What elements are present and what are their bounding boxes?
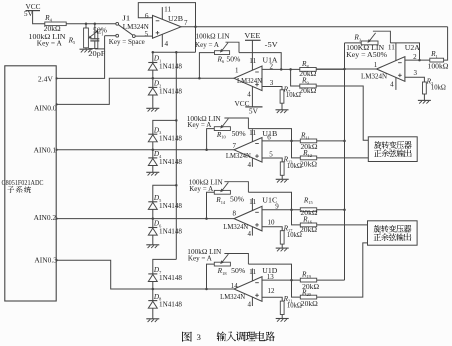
svg-text:4: 4 xyxy=(247,300,251,308)
svg-text:AIN0.1: AIN0.1 xyxy=(34,146,57,155)
resistor R15 20k xyxy=(300,208,344,212)
junction ch2 clamp xyxy=(152,217,155,220)
U1A pin3 stub xyxy=(262,87,282,91)
junction ch2 feedback riser xyxy=(205,217,208,220)
label R11 xyxy=(300,131,318,151)
op-amp U2A LM324N xyxy=(377,57,405,82)
block resolver sine output 1 xyxy=(368,137,417,162)
svg-text:2.4V: 2.4V xyxy=(38,74,54,83)
pin label AIN0.3 xyxy=(34,255,57,264)
op-amp U1A LM324N xyxy=(234,66,262,91)
U1A pin2 wire xyxy=(262,68,300,70)
label R8 xyxy=(299,59,316,78)
ground below D6 xyxy=(146,245,159,248)
U1A pin4 to VCC xyxy=(247,86,252,107)
label R1 xyxy=(428,49,449,70)
junction clamp bus ch1 xyxy=(175,119,178,122)
label R21 xyxy=(283,294,302,310)
svg-text:U2B: U2B xyxy=(168,15,183,23)
U2A output bus vertical xyxy=(344,43,346,280)
ground below R7 xyxy=(276,110,289,113)
svg-text:6: 6 xyxy=(145,12,149,20)
wire pot R6 left to output xyxy=(199,53,214,79)
resistor R2 10k xyxy=(423,82,427,100)
svg-text:7: 7 xyxy=(233,142,237,150)
diode D7 1N4148 xyxy=(148,274,157,289)
wire R20 branch xyxy=(292,280,301,297)
wire U2B output to R1 (2.4V rail) xyxy=(181,26,448,28)
potentiometer R3 feedback xyxy=(361,31,390,45)
wire pot R10 right to inverting input xyxy=(248,129,291,141)
U2A pin4 stub xyxy=(390,77,396,90)
junction R15 bus xyxy=(343,208,346,211)
diode D1 1N4148 xyxy=(148,63,157,79)
U1C labels xyxy=(223,196,279,231)
label R15 xyxy=(301,195,318,217)
potentiometer R5 100k LIN xyxy=(84,24,98,49)
wire J1 to U2B pin5 xyxy=(135,35,152,37)
resistor R17 10k xyxy=(280,231,284,248)
ground below R2 xyxy=(418,100,431,103)
svg-text:Key = A50%: Key = A50% xyxy=(346,51,387,59)
wire clamp rail to D5 xyxy=(153,185,177,202)
U1A pin11 to VEE xyxy=(249,40,257,70)
wire AIN0.3 to U1D output xyxy=(55,259,234,289)
svg-text:Key = A: Key = A xyxy=(189,185,214,193)
U2A pin11 stub xyxy=(388,43,396,61)
label resolver 2 line1 xyxy=(374,225,412,232)
U2A labels xyxy=(361,44,421,80)
wire rail down to clamp rail xyxy=(195,27,197,53)
switch J1 terminals xyxy=(116,22,135,37)
svg-text:Key = A: Key = A xyxy=(188,255,213,263)
wire pot R10 left to output xyxy=(207,129,215,150)
label R12 xyxy=(300,148,317,168)
svg-text:4: 4 xyxy=(165,40,169,48)
svg-text:1: 1 xyxy=(374,61,378,69)
svg-text:10: 10 xyxy=(268,218,276,226)
label D6 xyxy=(153,220,182,236)
wire R12 branch xyxy=(292,141,301,158)
svg-text:LM324N: LM324N xyxy=(220,293,246,301)
resistor R4 20k xyxy=(44,22,66,33)
svg-text:1N4148: 1N4148 xyxy=(159,134,182,142)
wire pot R14 right to inverting input xyxy=(248,192,291,209)
wire R3 right to pin2 xyxy=(390,43,419,60)
diode D2 1N4148 xyxy=(148,78,157,108)
pin label 2.4V xyxy=(38,74,54,83)
wire AIN0.1 to U1B output xyxy=(55,149,234,151)
U2A pin3 stub xyxy=(405,77,425,82)
diode D8 1N4148 xyxy=(148,289,157,319)
U2A output wire xyxy=(316,68,376,70)
svg-text:50%: 50% xyxy=(230,196,244,204)
svg-text:8: 8 xyxy=(233,210,237,218)
op-amp U1C LM324N xyxy=(234,206,262,231)
resistor R11 20k xyxy=(300,139,344,143)
U1D inverting input wire xyxy=(262,279,300,281)
resistor R1 100k xyxy=(430,27,448,62)
svg-text:20kΩ: 20kΩ xyxy=(300,161,317,169)
resistor R7 10k xyxy=(280,90,284,110)
svg-text:5V: 5V xyxy=(249,107,259,115)
U2B pin11 stub xyxy=(162,5,171,19)
label R14 pot xyxy=(189,178,244,205)
resistor R12 20k xyxy=(300,156,368,160)
ground below D8 xyxy=(146,319,159,322)
label D7 xyxy=(153,266,182,282)
svg-text:20kΩ: 20kΩ xyxy=(301,300,318,308)
U1D labels xyxy=(220,267,277,301)
svg-text:11: 11 xyxy=(249,57,257,65)
svg-text:11: 11 xyxy=(388,43,396,51)
svg-text:Key = Space: Key = Space xyxy=(109,38,145,46)
wire clamp rail to D3 xyxy=(153,120,177,134)
U2B output junction xyxy=(194,25,197,28)
resistor R21 10k xyxy=(280,301,284,318)
junction clamp bus on rail xyxy=(175,51,178,54)
svg-text:-5V: -5V xyxy=(265,41,279,49)
label R18 pot xyxy=(187,247,245,276)
svg-text:Key = A: Key = A xyxy=(195,41,220,49)
pin label AIN0.1 xyxy=(34,146,57,155)
label C8051F021ADC xyxy=(2,178,44,187)
wire clamp rail to D7 xyxy=(153,259,177,274)
label J1 xyxy=(109,14,145,46)
svg-text:LM324N: LM324N xyxy=(361,71,388,80)
wire pot R18 right to inverting input xyxy=(248,264,291,280)
resistor R13 10k xyxy=(280,162,284,179)
junction R3 on pin2 xyxy=(418,59,421,62)
svg-text:C8051F021ADC: C8051F021ADC xyxy=(2,178,44,187)
svg-text:50%: 50% xyxy=(231,267,245,275)
svg-text:LM324N: LM324N xyxy=(226,152,252,160)
U1D pin4 stub xyxy=(247,297,252,308)
svg-text:11: 11 xyxy=(249,129,257,137)
label R3 pot xyxy=(346,33,387,59)
ground below D2 xyxy=(146,108,159,111)
wire AIN0.0 to U1A output xyxy=(55,78,234,105)
label subsystem CJK xyxy=(8,186,31,193)
U1B labels xyxy=(226,130,278,160)
svg-text:3: 3 xyxy=(414,69,418,77)
wire R3 left to output bus xyxy=(345,42,362,44)
block C8051F021 ADC subsystem xyxy=(5,66,56,301)
svg-text:1N4148: 1N4148 xyxy=(159,228,182,236)
wire pot R14 left to output xyxy=(207,192,215,218)
label R20 xyxy=(301,287,318,308)
svg-text:1N4148: 1N4148 xyxy=(159,202,182,210)
diode D3 1N4148 xyxy=(148,134,157,150)
pin label AIN0.2 xyxy=(34,213,57,222)
svg-text:VEE: VEE xyxy=(244,31,261,40)
svg-text:11: 11 xyxy=(249,268,257,276)
caption figure 3 xyxy=(182,332,275,343)
U1C pin4 stub xyxy=(247,227,252,238)
svg-text:Key = A: Key = A xyxy=(187,121,212,129)
potentiometer R14 feedback xyxy=(214,182,248,195)
junction ch0 feedback riser xyxy=(198,77,201,80)
label resolver 2 line2 xyxy=(374,233,412,240)
svg-text:14: 14 xyxy=(231,282,239,290)
svg-text:12: 12 xyxy=(268,287,276,295)
label C1 xyxy=(88,27,105,58)
svg-text:LM324N: LM324N xyxy=(237,76,263,85)
svg-text:VCC: VCC xyxy=(235,99,250,108)
label R16 xyxy=(300,215,317,235)
label D1 xyxy=(153,55,182,71)
U2B pin4 stub xyxy=(162,34,168,48)
svg-text:20pF: 20pF xyxy=(88,50,105,58)
power VCC 5V supply symbol xyxy=(24,2,41,18)
label R9 xyxy=(299,76,316,95)
op-amp U2B LM324N xyxy=(153,15,182,38)
svg-text:LM324N: LM324N xyxy=(223,223,249,231)
svg-text:10kΩ: 10kΩ xyxy=(431,84,446,92)
label R7 xyxy=(283,84,301,99)
U2B labels xyxy=(123,12,188,38)
svg-text:5: 5 xyxy=(145,30,149,38)
wire J1 to 2.4V riser xyxy=(105,35,116,37)
svg-text:100kΩ LIN: 100kΩ LIN xyxy=(196,31,231,40)
capacitor C1 20pF xyxy=(90,24,104,49)
ground below R13 xyxy=(276,179,289,182)
U1C pin11 stub xyxy=(249,198,257,211)
label resolver 1 line2 xyxy=(374,150,412,157)
U1B plus input stub xyxy=(262,158,282,162)
label R6 pot xyxy=(195,31,240,64)
power VEE -5V xyxy=(244,31,278,49)
svg-text:3: 3 xyxy=(270,79,274,87)
junction U2A bus xyxy=(343,68,346,71)
svg-text:3: 3 xyxy=(196,332,201,342)
svg-text:AIN0.0: AIN0.0 xyxy=(34,103,57,112)
svg-text:1N4148: 1N4148 xyxy=(159,301,182,309)
diode D6 1N4148 xyxy=(148,219,157,245)
svg-text:7: 7 xyxy=(184,19,188,27)
svg-text:10kΩ: 10kΩ xyxy=(287,301,302,309)
label D8 xyxy=(153,293,182,309)
label D3 xyxy=(153,126,182,142)
resistor R16 20k xyxy=(300,223,367,227)
label R2 xyxy=(426,76,446,91)
block resolver sine output 2 xyxy=(368,221,418,245)
wire R4 to J1 node xyxy=(66,23,116,25)
wire VCC to R4 xyxy=(33,11,45,24)
svg-text:1N4148: 1N4148 xyxy=(159,88,182,96)
wire pot R18 left to output xyxy=(207,264,215,289)
junction R5 top xyxy=(85,23,88,26)
wire AIN0.2 to U1C output xyxy=(55,217,234,219)
wire 2.4V pin to J1 xyxy=(55,36,104,80)
label R10 pot xyxy=(187,114,246,140)
U2B pin6 stub and feedback xyxy=(138,3,195,27)
junction U1B inverting node xyxy=(290,140,293,143)
svg-text:20kΩ: 20kΩ xyxy=(299,87,316,95)
wire pot R6 right to pin2 xyxy=(239,53,281,70)
label R4 xyxy=(44,13,52,23)
svg-text:50%: 50% xyxy=(232,130,246,138)
diode D5 1N4148 xyxy=(148,202,157,219)
label D4 xyxy=(153,150,182,166)
label R17 xyxy=(283,223,302,239)
junction feedback on pin2 xyxy=(280,68,283,71)
power VCC 5V below U1A xyxy=(235,99,263,115)
svg-text:11: 11 xyxy=(164,5,171,13)
junction R9 branch xyxy=(289,68,292,71)
svg-text:4: 4 xyxy=(247,161,251,169)
svg-text:20kΩ: 20kΩ xyxy=(300,226,317,234)
svg-text:1N4148: 1N4148 xyxy=(159,274,182,282)
wire clamp rail to D1 xyxy=(152,52,154,62)
svg-text:1N4148: 1N4148 xyxy=(159,63,182,71)
svg-text:Key = A: Key = A xyxy=(37,40,63,48)
junction C1 top xyxy=(94,23,97,26)
junction D1 cathode on rail xyxy=(152,51,155,54)
ground below R5 xyxy=(80,49,93,52)
label resolver 1 line1 xyxy=(374,141,412,148)
svg-text:AIN0.2: AIN0.2 xyxy=(34,213,57,222)
svg-text:4: 4 xyxy=(247,90,251,98)
label R13 xyxy=(283,155,302,171)
U1D plus input stub xyxy=(262,297,282,301)
potentiometer R18 feedback xyxy=(214,254,248,267)
junction U1C inverting node xyxy=(290,208,293,211)
resistor R19 20k xyxy=(300,278,344,282)
clamp bus vertical xyxy=(175,52,177,259)
clamp rail y52 xyxy=(153,51,196,53)
junction ch3 feedback riser xyxy=(205,288,208,291)
ground below D4 xyxy=(146,172,159,175)
svg-text:1N4148: 1N4148 xyxy=(159,158,182,166)
U1A labels xyxy=(235,57,278,87)
svg-text:11: 11 xyxy=(249,198,257,206)
svg-text:4: 4 xyxy=(390,81,394,89)
U1C plus input stub xyxy=(262,227,282,231)
junction ch1 clamp xyxy=(152,149,155,152)
junction ch3 clamp xyxy=(152,288,155,291)
junction ch1 feedback riser xyxy=(205,149,208,152)
junction clamp bus ch2 xyxy=(175,184,178,187)
wire R9 branch xyxy=(291,69,300,86)
resistor R8 20k xyxy=(300,68,345,72)
wire R16 branch xyxy=(292,210,301,225)
U1B inverting input wire xyxy=(262,140,300,142)
potentiometer R6 feedback xyxy=(215,42,240,54)
label D5 xyxy=(153,194,182,210)
svg-text:100kΩ: 100kΩ xyxy=(428,62,449,70)
resistor R20 20k xyxy=(300,243,367,299)
U1D pin11 stub xyxy=(249,268,257,281)
resistor R9 20k xyxy=(300,84,369,140)
label D2 xyxy=(153,80,182,96)
svg-text:5V: 5V xyxy=(24,10,33,18)
svg-text:1: 1 xyxy=(235,67,239,75)
label R5 pot xyxy=(29,26,108,47)
diode D4 1N4148 xyxy=(148,150,157,173)
junction ch0 clamp xyxy=(152,77,155,80)
ground below R17 xyxy=(276,248,289,251)
svg-text:4: 4 xyxy=(247,230,251,238)
U1B pin11 stub xyxy=(249,129,257,142)
svg-text:AIN0.3: AIN0.3 xyxy=(34,255,57,264)
U2A pin2 wire xyxy=(405,59,430,61)
op-amp U1D LM324N xyxy=(234,277,262,302)
label R19 xyxy=(301,269,319,291)
op-amp U1B LM324N xyxy=(234,138,262,163)
junction U1D inverting node xyxy=(290,279,293,282)
ground below R21 xyxy=(276,319,289,322)
junction R11 bus xyxy=(343,140,346,143)
svg-text:U2A: U2A xyxy=(405,44,421,52)
U1C inverting input wire xyxy=(262,209,300,211)
potentiometer R10 feedback xyxy=(214,118,248,131)
svg-text:50%: 50% xyxy=(226,55,240,63)
pin label AIN0.0 xyxy=(34,103,57,112)
U1B pin4 stub xyxy=(247,158,252,169)
